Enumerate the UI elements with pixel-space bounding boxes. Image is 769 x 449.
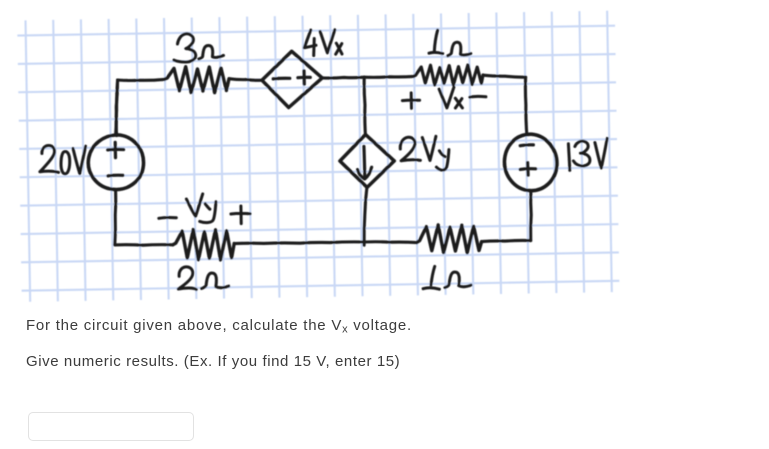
label 13V xyxy=(568,138,607,170)
label 3 ohm xyxy=(174,34,224,62)
label 20V xyxy=(40,145,86,173)
dependent current source 2Vy xyxy=(340,135,394,188)
wire bottom-left horizontal xyxy=(115,243,173,247)
wire node A to 1ohm top xyxy=(364,75,413,79)
plus sign of 20V source xyxy=(108,142,124,157)
wire bottom-left vertical xyxy=(113,191,117,245)
resistor 3ohm xyxy=(164,67,229,93)
resistor 1ohm bottom xyxy=(417,225,482,253)
plus sign of 13V source xyxy=(520,163,536,176)
resistor 1ohm top xyxy=(414,65,483,85)
wire 13V to bottom-right corner xyxy=(529,191,533,241)
wire top-left vertical xyxy=(116,80,117,136)
wire top-left horizontal xyxy=(118,79,165,80)
wire bottom middle xyxy=(234,242,416,244)
voltage source 20V xyxy=(88,135,143,190)
wire 4Vx to node A xyxy=(322,76,364,80)
label 2Vy xyxy=(400,136,449,170)
arrow of 2Vy source xyxy=(358,146,372,179)
label 1 ohm top xyxy=(429,30,471,56)
wire 2Vy to bottom junction xyxy=(364,187,367,245)
wire node A to 2Vy source xyxy=(364,77,365,134)
minus sign of 4Vx source xyxy=(273,77,290,81)
answer input box xyxy=(28,412,194,441)
wire 1ohm top to top-right corner xyxy=(483,75,526,77)
label 4Vx xyxy=(304,30,342,56)
wire 20V to top-left corner xyxy=(116,80,118,135)
minus sign of 13V source xyxy=(520,143,533,147)
label - Vy + (polarity of Vy) xyxy=(159,194,250,224)
label 2 ohm xyxy=(178,267,228,290)
wire 3ohm to 4Vx source xyxy=(229,79,262,81)
resistor 2ohm xyxy=(173,230,234,260)
wire bottom-right horizontal xyxy=(482,240,531,241)
label 1 ohm bottom xyxy=(423,266,471,289)
label + Vx - (polarity of Vx) xyxy=(402,87,486,108)
minus sign of 20V source xyxy=(108,174,123,178)
wire top-right vertical xyxy=(525,77,526,134)
voltage source 13V xyxy=(504,134,556,190)
dependent voltage source 4Vx xyxy=(262,51,322,107)
plus sign of 4Vx source xyxy=(298,71,310,84)
